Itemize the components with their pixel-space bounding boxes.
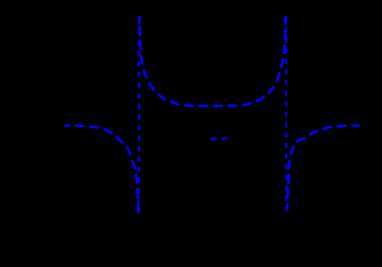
curve group (blue dashed) [65,16,360,214]
vertical asymptote line right [285,16,287,209]
curve right outer branch [287,126,359,211]
curve middle branch [140,16,286,106]
legend line sample dash 2 [222,138,227,140]
vertical asymptote line left [138,19,140,213]
legend line sample dash 1 [211,138,217,140]
curve left outer branch [65,126,139,215]
